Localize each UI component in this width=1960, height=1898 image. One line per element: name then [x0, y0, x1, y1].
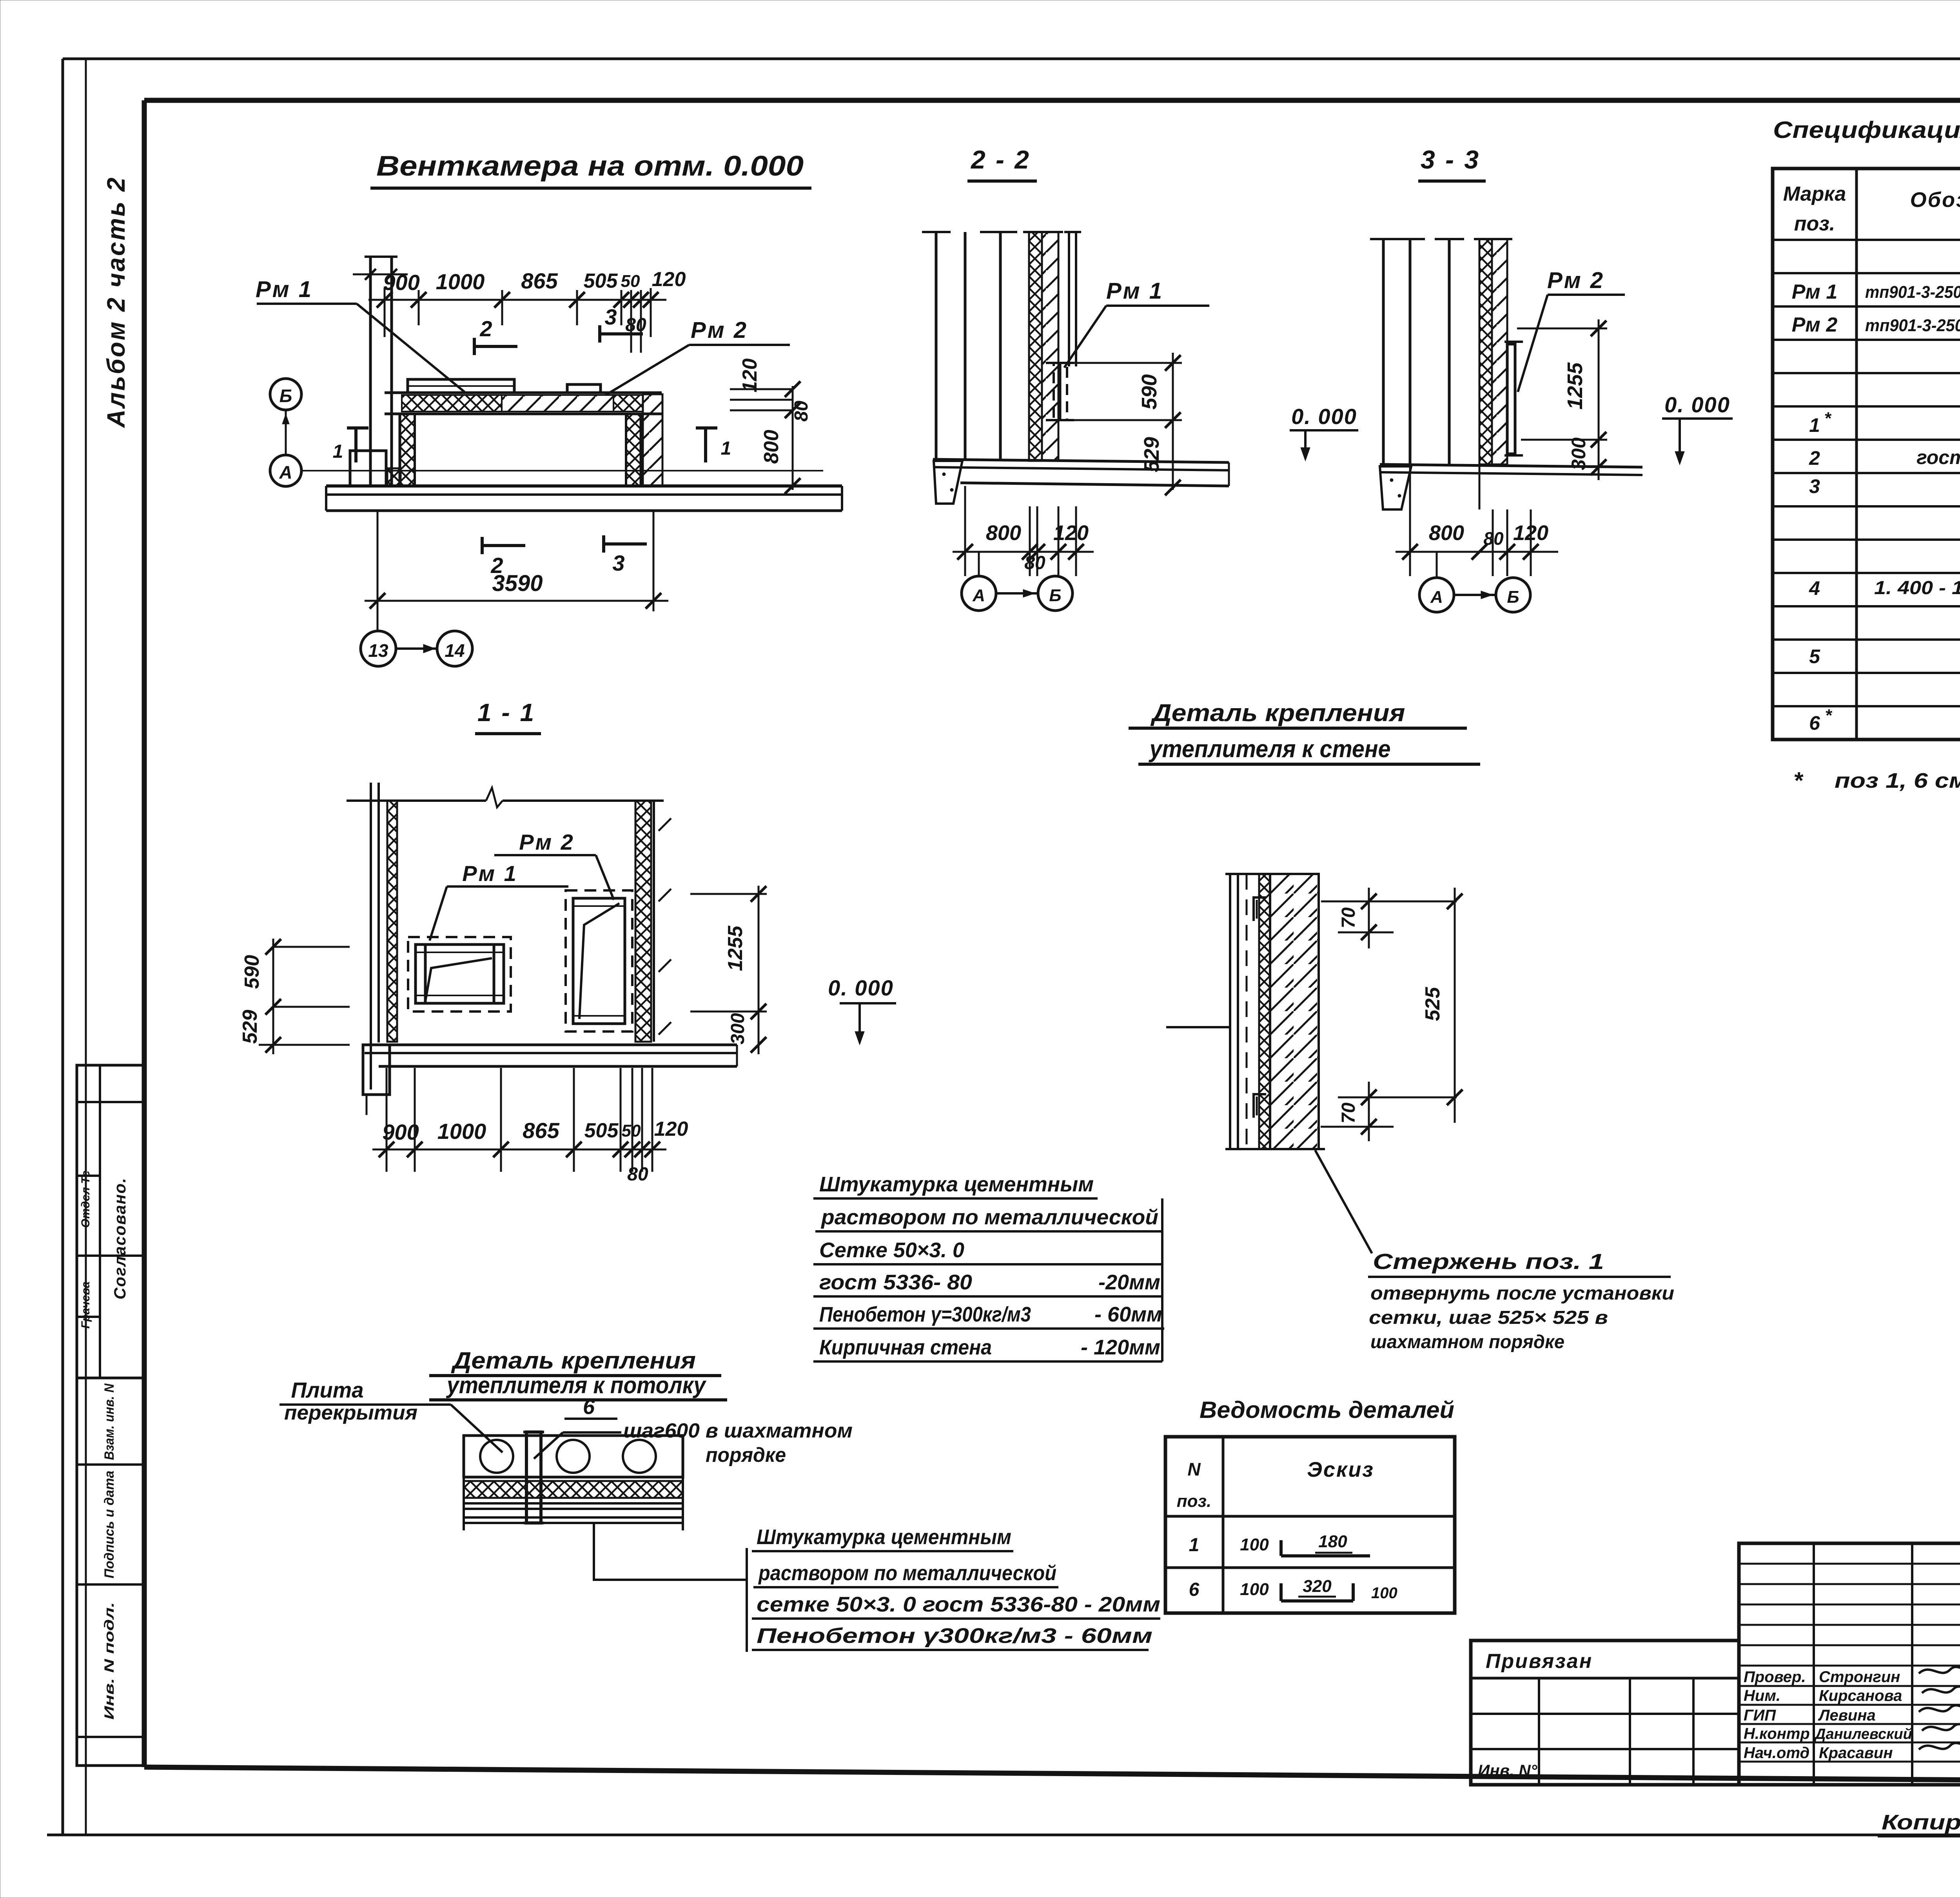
svg-text:тп901-3-250.88К Ж.И. 82.0.0.0: тп901-3-250.88К Ж.И. 82.0.0.0 [1865, 316, 1960, 335]
svg-text:1: 1 [1189, 1535, 1200, 1555]
svg-text:3 - 3: 3 - 3 [1421, 145, 1480, 174]
plaster note block 2 [747, 1525, 1160, 1652]
svg-text:1: 1 [721, 438, 731, 459]
plan bottom dimension 3590 [365, 511, 668, 631]
section 1-1 level mark 0.000 [828, 975, 896, 1045]
svg-text:6: 6 [1809, 712, 1820, 734]
axis circle B [270, 379, 301, 410]
svg-text:80: 80 [1483, 528, 1504, 549]
section 3-3 floor broken end wedge [1380, 466, 1411, 509]
label plita perekrytiya with leader [279, 1378, 503, 1452]
svg-text:3590: 3590 [492, 571, 543, 596]
ceiling detail label 6 and note [534, 1395, 853, 1467]
svg-text:0. 000: 0. 000 [1664, 392, 1730, 417]
svg-text:*: * [1824, 409, 1831, 428]
svg-text:Рм 1: Рм 1 [462, 861, 517, 886]
svg-text:утеплителя к потолку: утеплителя к потолку [446, 1372, 706, 1398]
svg-text:Грачева: Грачева [79, 1282, 92, 1329]
wall detail title line2 [1138, 736, 1480, 764]
ceiling plaster lines [464, 1436, 683, 1530]
section 1-1 label Pm2 with leader [494, 830, 614, 900]
spec row Pm1 [1792, 281, 1960, 303]
svg-text:1: 1 [1809, 414, 1820, 436]
svg-text:1255: 1255 [1563, 362, 1587, 410]
ceiling insulation crosshatch [464, 1481, 683, 1498]
svg-text:Инв. N подл.: Инв. N подл. [102, 1602, 117, 1720]
svg-text:поз.: поз. [1177, 1492, 1211, 1511]
wall detail anchor rod bottom [1254, 1094, 1266, 1118]
specification table header [1783, 183, 1960, 235]
plan chamber walls with insulation [400, 414, 641, 486]
plan top dimension chain 900 1000 865 505 50 120 [368, 268, 686, 353]
section mark 3 bottom [604, 535, 647, 575]
specification footnote [1793, 767, 1960, 794]
svg-text:3: 3 [1809, 475, 1820, 497]
section 1-1 top break line [347, 788, 664, 807]
left margin approval boxes upper [77, 1065, 144, 1378]
svg-text:100: 100 [1240, 1580, 1269, 1599]
section 1-1 window frame Pm2 dashed outline [566, 890, 632, 1031]
section 3-3 floor slab [1380, 464, 1642, 475]
section mark 2 bottom [482, 537, 525, 578]
spec row 4 [1809, 577, 1960, 599]
spec row 6* [1809, 706, 1960, 734]
section mark 1 right [696, 428, 731, 462]
svg-text:1000: 1000 [437, 1119, 486, 1144]
section 3-3 height dims 1255 300 [1517, 319, 1607, 480]
svg-text:Венткамера на отм. 0.000: Венткамера на отм. 0.000 [376, 150, 804, 182]
svg-text:Стержень поз. 1: Стержень поз. 1 [1373, 1249, 1604, 1274]
svg-text:0. 000: 0. 000 [1291, 404, 1357, 429]
section 1-1 left wall [371, 783, 397, 1089]
svg-text:Пенобетон γ=300кг/м3: Пенобетон γ=300кг/м3 [819, 1303, 1031, 1326]
svg-text:2: 2 [479, 316, 492, 341]
svg-text:13: 13 [368, 640, 388, 661]
wall detail section layers [1225, 874, 1325, 1149]
svg-text:Инв. N°: Инв. N° [1478, 1761, 1538, 1780]
ceiling leader to plaster note [594, 1523, 747, 1580]
label Pm2 with leader [606, 317, 790, 395]
svg-text:70: 70 [1338, 1102, 1359, 1124]
svg-text:529: 529 [1140, 437, 1163, 472]
svg-text:120: 120 [654, 1118, 688, 1140]
svg-text:раствором по металлической: раствором по металлической [758, 1561, 1056, 1585]
svg-text:Рм 1: Рм 1 [256, 277, 313, 302]
svg-text:поз 1, 6 см. ведомость: поз 1, 6 см. ведомость деталей на данном… [1835, 769, 1960, 792]
svg-text:590: 590 [1138, 374, 1161, 410]
vedomost header [1177, 1458, 1374, 1511]
svg-text:Кирсанова: Кирсанова [1819, 1687, 1902, 1704]
svg-text:Б: Б [279, 386, 292, 406]
svg-text:Согласовано.: Согласовано. [111, 1177, 129, 1300]
plan foundation block left [350, 451, 401, 486]
specification table grid [1773, 169, 1960, 740]
svg-text:4: 4 [1809, 577, 1820, 599]
section 2-2 floor slab [933, 459, 1229, 486]
svg-text:А: А [1430, 587, 1443, 607]
svg-text:Деталь крепления: Деталь крепления [451, 1347, 696, 1374]
section mark 3 top [600, 305, 643, 343]
section 1-1 window frame Pm2 [573, 898, 625, 1024]
svg-text:Деталь крепления: Деталь крепления [1150, 700, 1405, 727]
svg-text:180: 180 [1318, 1532, 1347, 1551]
svg-text:А: А [279, 462, 292, 482]
svg-text:320: 320 [1303, 1577, 1332, 1596]
plan chamber roof slab with hatching [385, 393, 662, 414]
axis circle 13 [361, 631, 396, 666]
svg-text:Стронгин: Стронгин [1819, 1668, 1900, 1686]
svg-text:Отдел Тс: Отдел Тс [79, 1171, 92, 1228]
sterzhen note text [1368, 1249, 1674, 1352]
svg-text:Левина: Левина [1818, 1707, 1876, 1724]
kopiroval line [1878, 1807, 1960, 1836]
svg-text:N: N [1187, 1459, 1201, 1479]
wall detail anchor rod top [1254, 897, 1266, 921]
svg-text:6: 6 [1189, 1579, 1200, 1600]
svg-text:шахматном порядке: шахматном порядке [1370, 1332, 1564, 1352]
svg-text:800: 800 [1429, 521, 1464, 545]
svg-text:6: 6 [583, 1395, 595, 1419]
wall detail leader to sterzhen note [1315, 1150, 1372, 1253]
section 3-3 label Pm2 with leader [1518, 268, 1625, 392]
section 2-2 level mark 0.000 [1290, 404, 1358, 461]
svg-text:0. 000: 0. 000 [828, 975, 894, 1000]
svg-text:Плита: Плита [291, 1378, 364, 1402]
section 1-1 window frame Pm1 dashed outline [408, 937, 511, 1012]
svg-text:Данилевский: Данилевский [1814, 1726, 1912, 1742]
wall detail left leader [1166, 1026, 1229, 1028]
ceiling fastening channel [523, 1432, 544, 1523]
ceiling detail title [429, 1347, 727, 1400]
svg-text:800: 800 [986, 521, 1021, 545]
svg-text:70: 70 [1338, 907, 1359, 928]
svg-text:шаг600 в шахматном: шаг600 в шахматном [623, 1419, 853, 1442]
plan view title [370, 150, 811, 188]
svg-text:Альбом 2 часть 2: Альбом 2 часть 2 [102, 176, 130, 428]
svg-text:120: 120 [652, 268, 686, 291]
svg-text:50: 50 [622, 1121, 641, 1140]
svg-text:Марка: Марка [1783, 183, 1846, 205]
svg-text:тп901-3-250.88 К Ж.И. 81.0.0.0: тп901-3-250.88 К Ж.И. 81.0.0.0 [1865, 283, 1960, 302]
section 1-1 bottom dimension chain [372, 1068, 688, 1185]
svg-text:сетки, шаг 525× 525 в: сетки, шаг 525× 525 в [1369, 1307, 1608, 1328]
svg-text:гост 5336- 80: гост 5336- 80 [819, 1271, 972, 1294]
svg-text:*: * [1825, 706, 1832, 725]
svg-text:1. 400 - 15 В 1. 410- 02: 1. 400 - 15 В 1. 410- 02 [1874, 578, 1960, 598]
svg-text:14: 14 [445, 640, 465, 661]
plan plate Pm2 on roof [567, 384, 601, 393]
svg-text:Нач.отд: Нач.отд [1744, 1744, 1809, 1762]
svg-text:Рм 2: Рм 2 [1547, 268, 1604, 293]
vedomost table grid [1165, 1437, 1455, 1613]
svg-text:120: 120 [1053, 521, 1089, 545]
svg-text:865: 865 [523, 1118, 559, 1143]
axis arrow B to A [282, 410, 289, 455]
svg-text:80: 80 [627, 1164, 648, 1185]
svg-text:порядке: порядке [706, 1444, 786, 1467]
svg-text:сетке 50×3. 0 гост 5336-80 -: сетке 50×3. 0 гост 5336-80 - 20мм [757, 1593, 1160, 1616]
section mark 1 left [333, 428, 368, 462]
section 1-1 foundation step [363, 1045, 390, 1115]
section 2-2 floor broken end wedge [934, 461, 962, 504]
svg-text:529: 529 [239, 1010, 261, 1044]
svg-text:Копировал. Подлевская: Копировал. Подлевская [1882, 1811, 1960, 1834]
plan floor slab [326, 486, 842, 511]
svg-text:1255: 1255 [724, 925, 747, 971]
section 2-2 bottom dims 800 80 120 [953, 486, 1094, 576]
title block signature names [1744, 1668, 1912, 1762]
svg-text:800: 800 [760, 430, 783, 464]
svg-text:Б: Б [1507, 587, 1519, 607]
svg-text:1 - 1: 1 - 1 [477, 698, 535, 727]
plan plate Pm1 on roof [408, 379, 514, 393]
svg-text:Ведомость деталей: Ведомость деталей [1200, 1397, 1454, 1423]
svg-text:865: 865 [521, 268, 558, 293]
svg-text:5: 5 [1809, 645, 1820, 667]
title block left box privyazan [1471, 1641, 1739, 1785]
svg-text:505: 505 [584, 270, 618, 292]
svg-text:1: 1 [333, 441, 343, 462]
svg-text:Ним.: Ним. [1744, 1687, 1780, 1704]
wall detail dims 70 525 70 [1321, 888, 1463, 1141]
svg-text:Подпись и дата: Подпись и дата [102, 1471, 117, 1579]
svg-text:3: 3 [604, 305, 617, 329]
section 1-1 label Pm1 with leader [430, 861, 568, 941]
svg-text:Штукатурка цементным: Штукатурка цементным [757, 1525, 1011, 1549]
spec row 5 shveller fraction [1809, 614, 1960, 667]
svg-text:Штукатурка цементным: Штукатурка цементным [819, 1173, 1094, 1196]
svg-text:300: 300 [728, 1013, 748, 1044]
svg-text:2: 2 [1809, 447, 1820, 469]
section 3-3 level mark 0.000 [1662, 392, 1733, 465]
section 1-1 right dims 1255 300 [690, 886, 767, 1054]
svg-text:Спецификация к схеме рас: Спецификация к схеме расположения вентка… [1773, 117, 1960, 143]
svg-text:Рм 1: Рм 1 [1106, 278, 1163, 304]
svg-text:отвернуть после установки: отвернуть после установки [1370, 1283, 1674, 1304]
svg-text:Привязан: Привязан [1486, 1650, 1593, 1673]
svg-text:300: 300 [1568, 437, 1590, 470]
section 2-2 title [967, 145, 1037, 181]
section 1-1 right wall [635, 801, 671, 1042]
svg-text:50: 50 [621, 272, 640, 291]
svg-text:Обозначение: Обозначение [1910, 188, 1960, 212]
svg-text:Рм 2: Рм 2 [1792, 314, 1838, 336]
label Pm1 with leader [256, 277, 465, 392]
svg-text:Пенобетон γ300кг/м3 - 60мм: Пенобетон γ300кг/м3 - 60мм [757, 1624, 1152, 1648]
svg-text:утеплителя к стене: утеплителя к стене [1149, 736, 1391, 763]
section 3-3 wall lines [1370, 239, 1464, 464]
svg-text:Провер.: Провер. [1744, 1668, 1806, 1686]
svg-text:Эскиз: Эскиз [1307, 1458, 1374, 1481]
section 3-3 title [1418, 145, 1486, 181]
svg-text:80: 80 [791, 401, 812, 422]
svg-text:- 120мм: - 120мм [1081, 1336, 1160, 1359]
axis line A [301, 470, 823, 471]
wall detail title line1 [1129, 700, 1467, 728]
svg-text:Рм 2: Рм 2 [691, 317, 748, 343]
section 2-2 insulation and brick strips [1023, 232, 1063, 461]
vedomost row 1 sketch [1189, 1532, 1370, 1556]
svg-text:100: 100 [1371, 1584, 1397, 1602]
axis circle 14 [437, 631, 472, 666]
section 3-3 axis circles A B [1419, 552, 1530, 612]
plan brick wall right of chamber [643, 394, 662, 486]
left margin stamp boxes lower [77, 1378, 144, 1766]
section mark 2 top [474, 316, 517, 355]
spec row 3 shveller fraction [1809, 475, 1960, 572]
section 3-3 insulation and brick strips [1474, 239, 1512, 464]
svg-text:900: 900 [383, 270, 419, 295]
spec row 1* [1809, 409, 1960, 436]
svg-text:100: 100 [1240, 1535, 1269, 1554]
section 1-1 left dims 590 529 [239, 939, 350, 1054]
title block signatures scribbles [1919, 1667, 1960, 1749]
axis arrow 13-14 [396, 644, 437, 653]
svg-text:Б: Б [1049, 586, 1061, 605]
section 2-2 inner leaf [1064, 232, 1081, 366]
svg-text:525: 525 [1421, 987, 1444, 1021]
svg-text:Рм 1: Рм 1 [1792, 281, 1838, 303]
plan left duct wall [353, 257, 408, 486]
svg-text:А: А [972, 586, 985, 605]
svg-text:поз.: поз. [1794, 212, 1835, 235]
section 2-2 wall lines [922, 232, 1017, 461]
svg-text:3: 3 [612, 551, 624, 575]
plaster note block 1 [813, 1173, 1164, 1361]
svg-text:раствором по металлической: раствором по металлической [820, 1206, 1158, 1229]
svg-text:- 60мм: - 60мм [1094, 1303, 1162, 1326]
section 2-2 label Pm1 with leader [1064, 278, 1209, 368]
svg-text:гост 5336 - 80: гост 5336 - 80 [1916, 446, 1960, 468]
axis circle A [270, 455, 301, 486]
section 2-2 frame Pm1 dashed [1046, 363, 1074, 420]
svg-text:120: 120 [1513, 521, 1548, 545]
section 2-2 height dims 590 529 [1074, 353, 1182, 495]
title block signature grid [1739, 1543, 1960, 1785]
svg-text:Взам. инв. N: Взам. инв. N [102, 1383, 117, 1460]
svg-text:590: 590 [241, 955, 263, 989]
section 2-2 axis circles A B [962, 552, 1073, 611]
svg-text:Н.контр: Н.контр [1744, 1725, 1810, 1742]
svg-text:ГИП: ГИП [1744, 1707, 1776, 1724]
svg-text:80: 80 [1024, 553, 1045, 573]
svg-text:2 - 2: 2 - 2 [970, 145, 1031, 174]
svg-text:Сетке 50×3. 0: Сетке 50×3. 0 [819, 1238, 964, 1262]
svg-text:-20мм: -20мм [1098, 1271, 1160, 1294]
vedomost row 6 sketch [1189, 1577, 1397, 1602]
spec row 2 setka [1809, 444, 1960, 473]
ceiling slab with hollow cores [464, 1436, 683, 1477]
spec row Pm2 [1792, 314, 1960, 338]
svg-text:Кирпичная стена: Кирпичная стена [819, 1336, 992, 1359]
right height references 120 80 800 [730, 359, 812, 494]
section 1-1 floor slab [365, 1045, 737, 1066]
section 1-1 window frame Pm1 [416, 944, 504, 1003]
svg-text:1000: 1000 [436, 269, 485, 294]
svg-text:505: 505 [584, 1119, 619, 1142]
svg-text:900: 900 [382, 1120, 419, 1144]
section 1-1 title [475, 698, 541, 734]
svg-text:*: * [1793, 767, 1804, 794]
section 3-3 bottom dims 800 80 120 [1396, 464, 1558, 576]
svg-text:Красавин: Красавин [1819, 1744, 1893, 1762]
svg-text:120: 120 [739, 359, 761, 393]
svg-text:Рм 2: Рм 2 [519, 830, 574, 854]
section 3-3 frame Pm2 bar [1504, 342, 1523, 455]
